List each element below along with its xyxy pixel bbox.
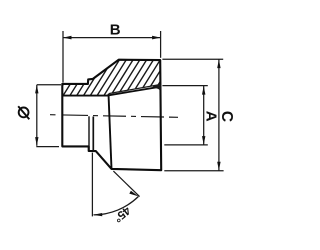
dim C arrow top [217,59,220,68]
hex corner verticals (bottom half) [88,116,90,151]
dim Ø extension bottom [36,146,59,148]
hatch section lines [30,57,189,105]
dim Ø arrow bottom [35,137,38,146]
part outer outline [62,60,161,171]
centerline [50,115,178,118]
svg-text:C: C [218,111,235,122]
taper root line (hatch boundary) [109,85,161,94]
svg-text:A: A [202,111,219,122]
dim C extension bottom [164,170,223,172]
dim A arrow top [202,86,205,95]
dim A arrow bottom [202,136,205,145]
dim A extension top [162,85,207,87]
taper lines wedge [152,85,161,90]
dim Ø line [36,85,38,146]
svg-text:B: B [110,21,121,38]
dim A extension bottom [164,144,208,146]
taper crest line [109,87,161,95]
dim C line [218,59,220,170]
dim B arrow right [152,36,161,40]
label Ø [18,106,29,119]
45deg arc [94,197,139,215]
bore step vertical (long) [109,94,112,169]
dim C arrow bottom [217,162,220,171]
45deg arc arrow right [129,191,138,197]
45deg vertical extension line [91,153,93,217]
dim B extension left [62,31,64,83]
45deg leader line [113,171,139,197]
svg-text:45°: 45° [111,204,133,225]
45deg arc arrow left [93,213,103,216]
dim C extension top [162,58,223,60]
dim A line [203,86,205,145]
dim Ø arrow top [35,85,38,94]
dim B line [63,37,161,39]
bore top surface line [62,95,108,97]
dim B extension right [160,31,162,58]
dim Ø extension top [37,84,61,86]
dim B arrow left [63,36,72,40]
